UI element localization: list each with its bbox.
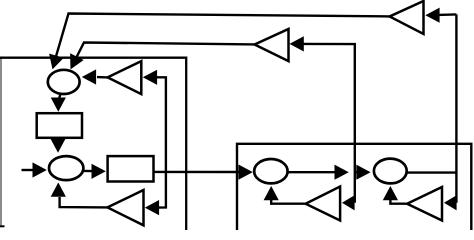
subsystem box left bottom-left tick	[0, 225, 5, 227]
arrowhead: external input into sum2 (right)	[33, 162, 47, 177]
wire: gain A input stub	[438, 13, 456, 16]
arrowhead: into gain1 (left)	[143, 70, 157, 85]
arrowhead: feedback up into sum2	[51, 183, 66, 197]
arrowhead: into gain B (left)	[290, 36, 304, 51]
arrowhead: into gain3L (left)	[145, 200, 159, 215]
sum junction 1	[48, 70, 80, 94]
wire: sum 3 output	[288, 171, 336, 173]
arrowhead: block1 output into sum2 (down)	[50, 139, 65, 153]
arrowhead: chain into sum3 (right)	[239, 165, 253, 180]
block 2	[108, 156, 154, 181]
arrowhead: diagonal line1 into sum1 top (down-left)	[49, 54, 64, 70]
wire: right vertical bus x=456	[455, 14, 457, 202]
wire: gain B input and vertical bus x=355	[302, 44, 355, 203]
wire: feedback line 2 from gain B to sum 1	[72, 43, 255, 68]
wire: gain 3L feedback to sum 2	[60, 197, 108, 207]
gain triangle A (top right)	[390, 1, 424, 34]
arrowhead: sum3 output into bus (right)	[335, 165, 349, 180]
subsystem box right	[237, 144, 471, 231]
wire: block 2 output long line to sum 3	[153, 171, 240, 174]
wire: block 1 output stub	[57, 138, 60, 142]
sum junction 4	[374, 159, 407, 184]
wire: gain 3R feedback to sum 3	[271, 200, 306, 204]
wire: gain 4R feedback to sum 4	[390, 200, 407, 204]
gain triangle 4R (right box, under sum4)	[407, 187, 442, 221]
arrowhead: gain1 output into sum1 (left)	[82, 69, 96, 84]
wire: gain 1 input from mid vertical bus x=166	[157, 77, 166, 207]
arrowhead: sum1 output into block1 (down)	[51, 98, 66, 112]
wire: feedback line 1 from gain A to sum 1 (top long line with diagonal)	[54, 14, 390, 66]
wire: bus to sum 4 stub	[355, 171, 358, 173]
arrowhead: sum2 output into block2 (right)	[92, 164, 106, 179]
subsystem box left top/right edges	[0, 58, 186, 231]
arrowhead: feedback up into sum3	[264, 186, 279, 200]
wire: gain 1 output to sum 1	[97, 76, 108, 79]
gain triangle 3R (right box, under sum3)	[306, 187, 341, 221]
arrowhead: diagonal line2 into sum1 top (down-left)	[70, 53, 84, 69]
arrowhead: into gain4R (left)	[444, 195, 457, 210]
gain triangle 1 (left box upper)	[108, 61, 142, 94]
wire: sum 4 output to right bus	[408, 171, 458, 173]
arrowhead: into gain A (left)	[425, 8, 439, 23]
sum junction 3	[254, 159, 287, 183]
wire: sum 1 output stub	[59, 94, 61, 99]
block 1	[37, 113, 82, 138]
subsystem box left (grey left edge)	[0, 58, 2, 227]
arrowhead: into gain3R (left)	[342, 195, 355, 210]
gain triangle B (top middle)	[255, 29, 289, 61]
arrowhead: feedback up into sum4	[383, 186, 398, 200]
wire: sum 2 output to block 2	[84, 170, 94, 173]
sum junction 2	[49, 156, 83, 180]
gain triangle 3L (left box lower)	[107, 190, 143, 225]
wire: external input to sum 2	[22, 169, 35, 171]
arrowhead: bus into sum4 (right)	[356, 165, 370, 180]
